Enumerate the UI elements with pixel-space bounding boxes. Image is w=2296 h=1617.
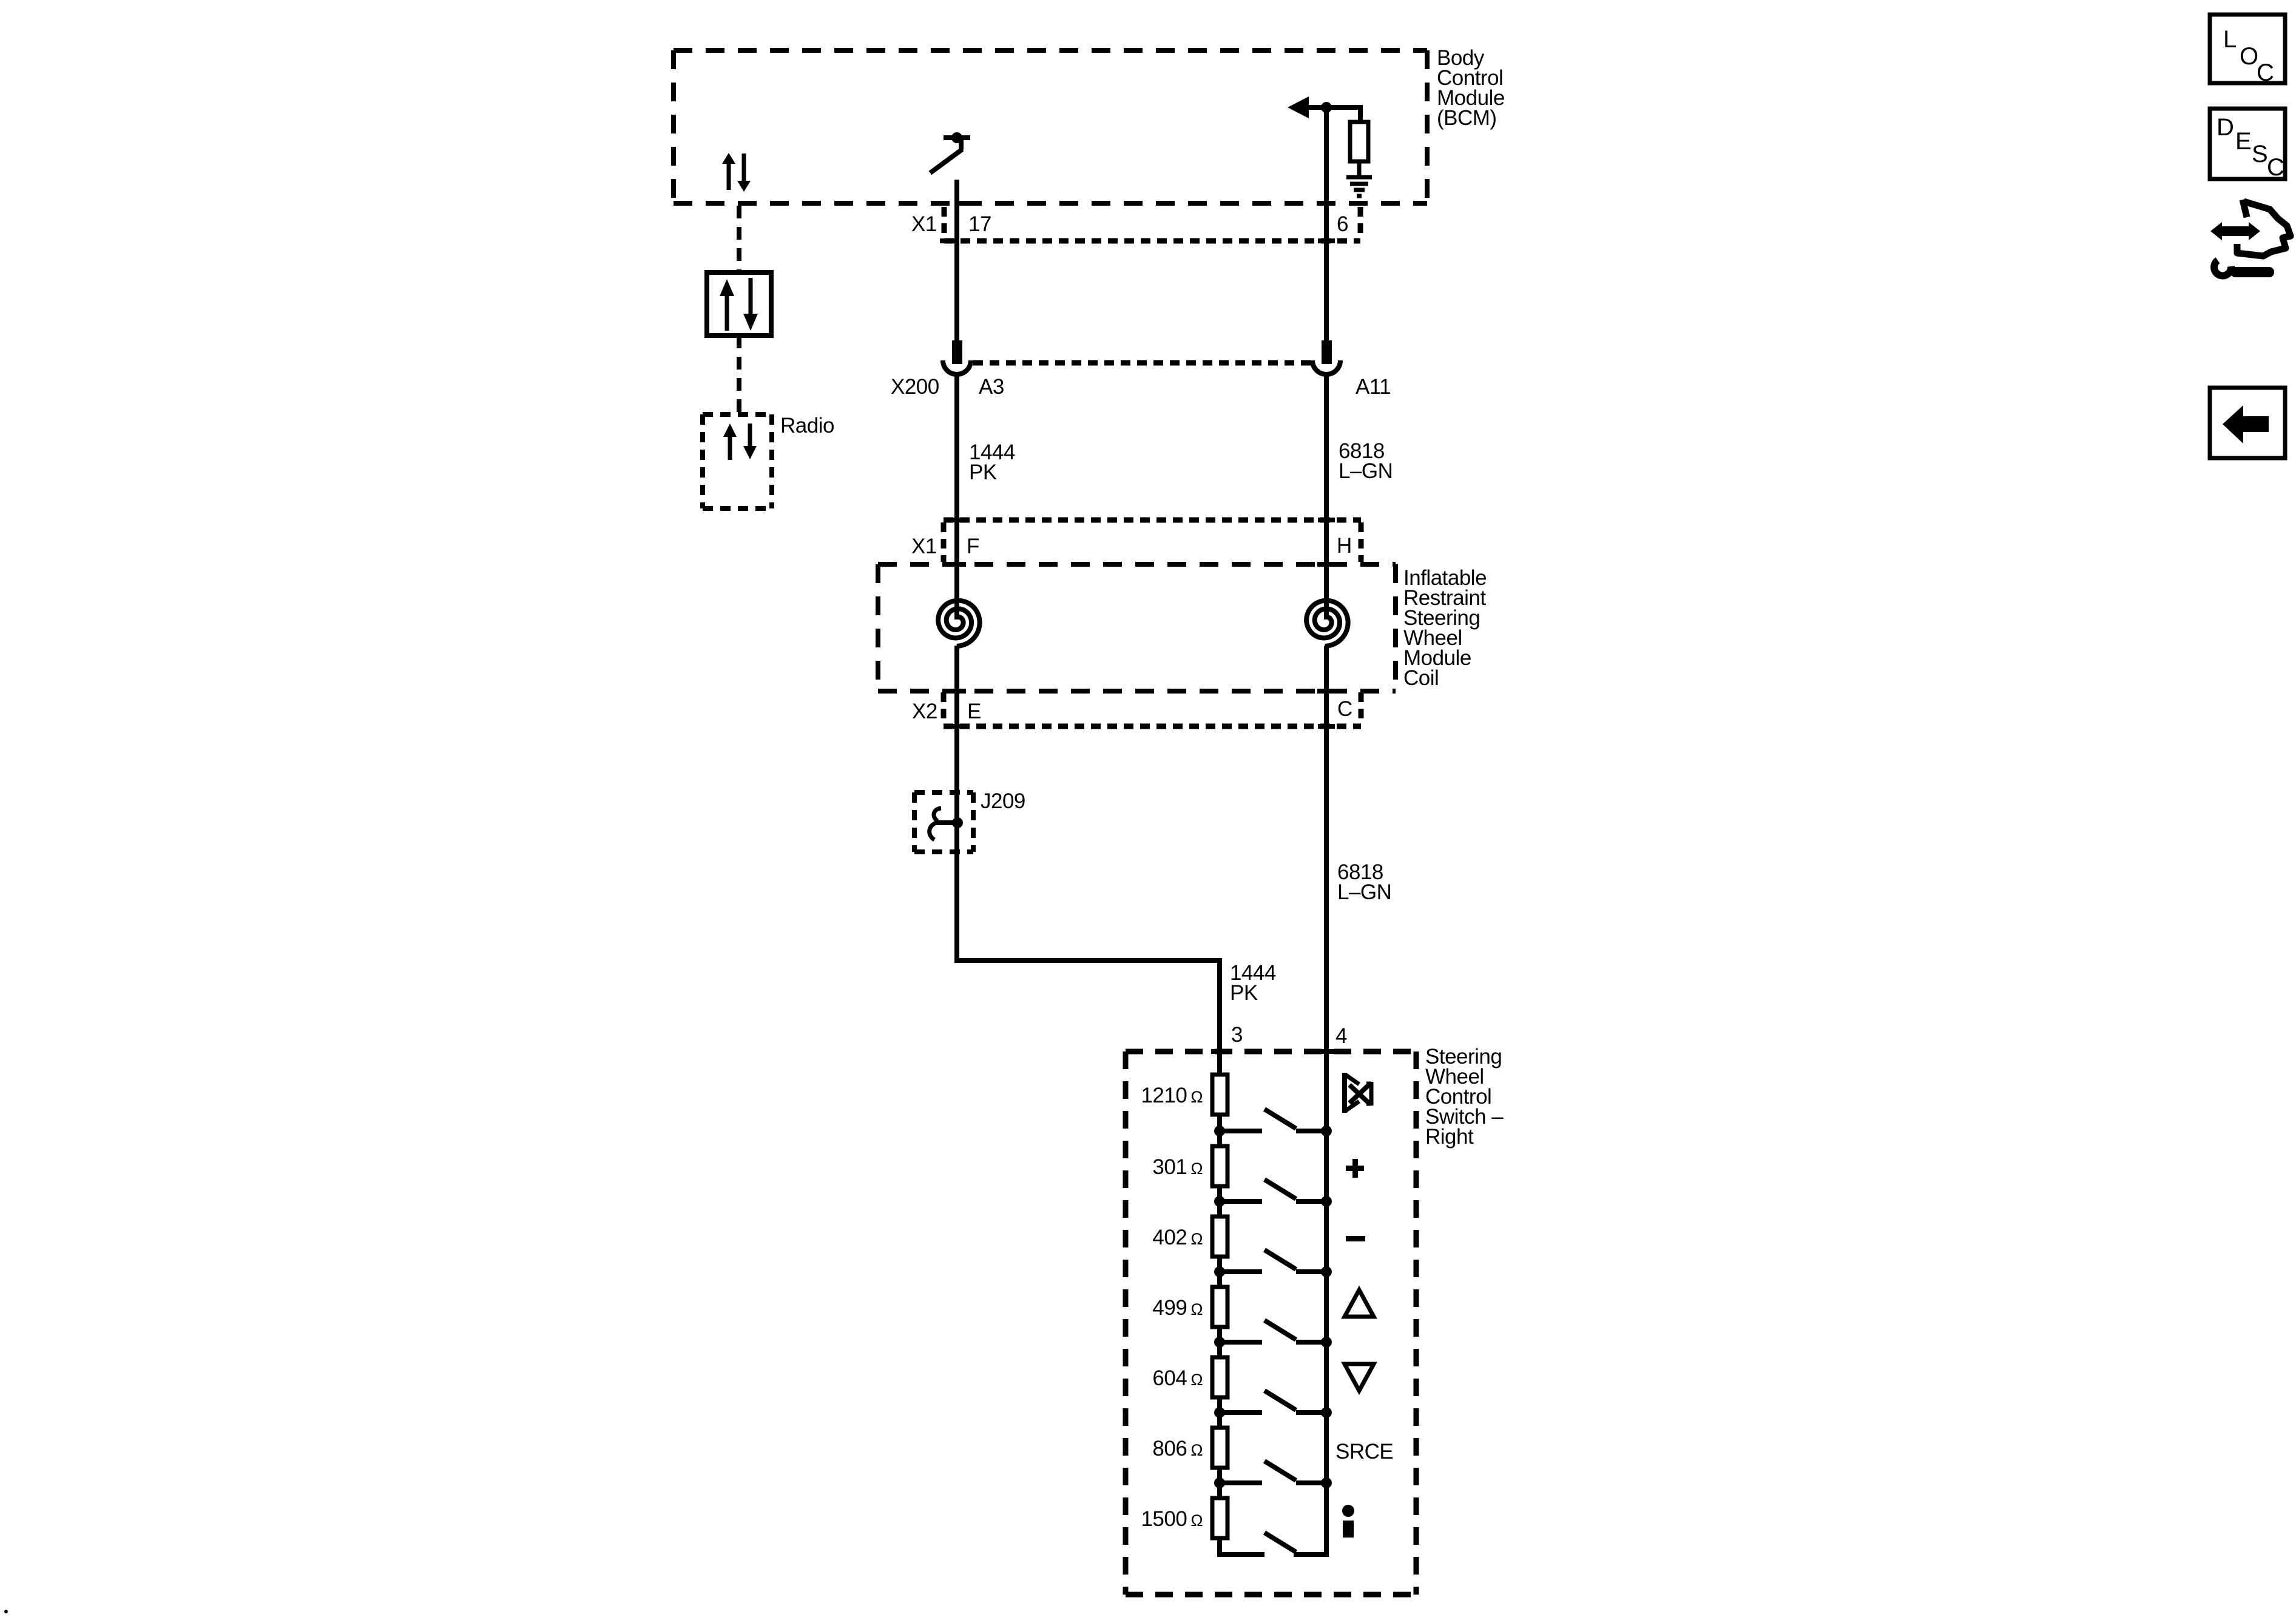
svg-text:Right: Right [1425,1125,1474,1149]
diagnostic hand icon double arrow [2220,226,2251,236]
svg-text:6: 6 [1337,212,1348,236]
svg-text:L: L [2223,26,2237,53]
svg-text:Coil: Coil [1403,666,1439,690]
svg-text:SRCE: SRCE [1335,1440,1393,1463]
back arrow button box [2210,388,2285,458]
connector X2 dotted line [944,724,1361,729]
tick pin 17 [957,201,974,206]
J209 [914,789,1025,852]
wire 1444 PK middle segment (X200 to jog) [954,376,959,619]
svg-text:C: C [2267,154,2284,181]
resistor R7 1500 ohm [1212,1498,1227,1538]
svg-text:17: 17 [968,212,991,236]
splice lead [935,820,957,825]
X200 left socket (female) [943,360,971,374]
steering wheel control switch box (dashed) [1126,1049,1416,1055]
tick pin F [948,518,965,522]
junction dot at BCM output [1321,102,1332,113]
switch SW6 source [1220,1480,1262,1485]
icon volume minus [1346,1236,1365,1241]
dashed link box to radio [737,336,741,414]
svg-text:S: S [2252,141,2267,167]
tick pin C [1318,724,1335,729]
resistor R3 402 ohm [1212,1217,1227,1257]
COILBOX [878,564,1487,691]
wire 1444 PK jog to switch pin 3 [954,960,1220,1075]
splice hook lower [930,823,936,840]
X1 bracket left [942,207,947,239]
serial data link box (solid) [707,272,771,336]
wrench icon [2214,260,2231,275]
svg-text:C: C [1337,697,1352,721]
up arrow in link box [725,295,729,331]
svg-text:J209: J209 [981,789,1025,813]
wire 6818 L-GN upper segment (right vertical) [1324,105,1329,340]
resistor R6 806 ohm [1212,1428,1227,1468]
svg-text:X200: X200 [891,375,939,399]
WIRES [954,105,1326,1075]
tick crossings at coil box [948,562,966,567]
switch SW5 seek down [1220,1410,1262,1415]
icon seek up triangle [1345,1290,1374,1317]
pull-up resistor inside BCM [1358,105,1363,122]
splice hook upper [934,808,941,821]
switch SW4 seek up [1220,1340,1262,1345]
LEFTCHAIN [703,206,834,508]
svg-text:X2: X2 [912,700,937,723]
icon seek down triangle [1345,1364,1374,1391]
switch SW1 mute [1220,1129,1262,1133]
tick pin H [1318,518,1335,522]
X200 right socket (female) [1312,360,1340,374]
svg-text:X1: X1 [911,535,937,558]
resistor R4 499 ohm [1212,1287,1227,1327]
connector X1 (coil) dotted line [944,518,1361,523]
svg-text:L–GN: L–GN [1337,880,1391,904]
coil module box (dashed) [878,562,1396,567]
switch SW3 vol- [1220,1269,1262,1274]
svg-text:X1: X1 [911,212,937,236]
svg-text:L–GN: L–GN [1339,459,1393,483]
resistor ladder bus (left) [1220,1075,1264,1555]
svg-text:PK: PK [1230,981,1258,1005]
radio box (dashed) [703,412,772,417]
svg-text:A11: A11 [1356,375,1391,399]
resistor R2 301 ohm [1212,1146,1227,1186]
svg-text:O: O [2240,43,2258,70]
BCM [674,46,1505,203]
connector X1 (BCM) dotted line [944,238,1360,244]
page dot [4,1610,8,1613]
dashed link BCM to comm box [737,206,741,272]
svg-text:E: E [967,700,981,723]
BCM module box (dashed) [674,48,1427,53]
switch inside BCM (driver) [951,132,962,143]
splice junction dot [952,817,963,828]
splice J209 box (dashed) [914,790,973,795]
SWITCHBOX [1126,1045,1504,1595]
wire 1444 PK upper segment (left vertical) [954,180,959,340]
svg-text:E: E [2235,128,2251,155]
resistor R1 1210 ohm [1212,1075,1227,1115]
tick pin 3 [1211,1049,1228,1054]
down arrow in radio [748,424,752,446]
icon volume plus [1346,1166,1364,1171]
connector X200 dashed line [973,360,1311,366]
LOC button box [2210,15,2285,83]
X200 left pin (male) [952,340,962,364]
serial-data up/down arrows inside BCM [727,163,731,190]
switch SW7 info [1264,1533,1296,1552]
X2 bracket right [1359,692,1364,724]
svg-text:F: F [967,535,979,558]
tick pin 6 [1318,201,1335,206]
wire 6818 L-GN lower segment to switch pin 4 [1324,376,1329,619]
tick pin 4 [1318,1049,1335,1054]
X1 coil bracket left [941,522,947,562]
svg-text:H: H [1337,534,1352,558]
CONNECTORS [891,203,1393,1048]
X1 coil bracket right [1359,522,1364,562]
svg-text:PK: PK [969,461,997,484]
switch SW2 vol+ [1220,1199,1262,1204]
diagnostic hand outline [2237,200,2291,256]
signal arrow inside BCM [1288,96,1309,118]
svg-text:D: D [2217,114,2234,141]
svg-text:3: 3 [1231,1023,1243,1047]
svg-text:Radio: Radio [780,414,834,437]
X1 bracket right [1358,207,1363,239]
svg-text:4: 4 [1335,1024,1347,1048]
svg-text:C: C [2257,59,2274,86]
icon info i [1342,1505,1354,1517]
svg-text:(BCM): (BCM) [1437,106,1497,130]
coil L1 (left spiral) [938,601,979,646]
DESC button box [2210,109,2285,179]
tick pin E [948,724,965,729]
coil L2 (right spiral) [1306,601,1348,646]
X200 right pin (male) [1322,340,1332,364]
common bus (right) [1294,1052,1326,1555]
X2 bracket left [941,692,947,724]
up arrow in radio [728,437,732,460]
resistor R5 604 ohm [1212,1357,1227,1397]
down arrow in link box [749,278,753,314]
icon mute (speaker with X) [1345,1073,1371,1113]
svg-text:A3: A3 [979,375,1004,399]
ground inside BCM [1346,175,1372,180]
